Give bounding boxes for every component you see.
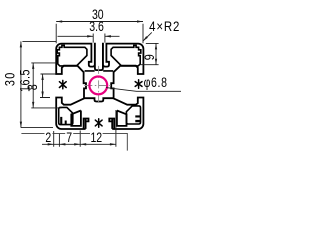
svg-text:3.6: 3.6 bbox=[89, 19, 104, 35]
hollow chamber D (bottom-right) with serration bbox=[126, 106, 140, 124]
asterisk in phi6.8 label bbox=[135, 80, 142, 88]
dimension 30 left: arrows bbox=[20, 41, 22, 47]
dimension 16.5: line bbox=[32, 63, 34, 108]
svg-text:2: 2 bbox=[45, 130, 51, 146]
label 4xR2: leader bbox=[143, 32, 152, 41]
svg-text:φ6.8: φ6.8 bbox=[144, 75, 168, 91]
dimension 30 left: extension lines bbox=[21, 41, 56, 127]
bottom chain dimension line bbox=[42, 143, 116, 145]
hollow chamber C (bottom-left) with serration bbox=[59, 107, 73, 124]
hollow chamber A (top-left) with nut serration notch bbox=[57, 45, 87, 66]
centerline vertical (gray dash-dot) bbox=[98, 66, 100, 105]
svg-text:30: 30 bbox=[2, 71, 17, 86]
svg-text:8: 8 bbox=[25, 84, 40, 90]
dimension 3.6: lines bbox=[58, 35, 120, 37]
bottom chain arrows bbox=[48, 143, 54, 145]
dimension 3.6: arrows bbox=[87, 35, 93, 37]
svg-text:7: 7 bbox=[66, 130, 72, 146]
svg-text:12: 12 bbox=[90, 130, 102, 146]
leader for phi6.8 bbox=[106, 88, 181, 92]
dimension 30 top: arrows bbox=[56, 20, 62, 22]
dimension 30 top: line bbox=[56, 21, 143, 23]
hollow C serration tabs bbox=[60, 117, 66, 125]
dimension 3.6: extension lines bbox=[93, 34, 105, 43]
core top wall bbox=[85, 70, 114, 72]
dimension 9 right: arrows bbox=[155, 43, 157, 49]
asterisk left slot bbox=[59, 80, 66, 88]
asterisk bottom slot bbox=[95, 119, 102, 127]
dimension 8: arrows bbox=[41, 74, 43, 80]
dimension 9 right: line bbox=[155, 43, 157, 64]
svg-text:9: 9 bbox=[142, 54, 157, 60]
profile outer outline with 4 T-slots (aluminum extrusion cross-section) bbox=[56, 44, 143, 129]
center hole phi6.8 (magenta highlight circle) bbox=[89, 77, 107, 95]
hollow chamber B (top-right) with nut serration notch bbox=[111, 45, 141, 66]
dimension 8: extension lines bbox=[40, 74, 56, 98]
hollow D serration tabs bbox=[135, 115, 140, 122]
dimension 30 top: extension lines bbox=[56, 24, 143, 43]
dimension 16.5: extension lines bbox=[31, 63, 61, 108]
dimension 9 right: extension lines bbox=[140, 43, 159, 64]
bottom chain extension lines bbox=[54, 110, 116, 147]
frame line bottom-right bbox=[21, 133, 127, 150]
svg-text:4×R2: 4×R2 bbox=[149, 19, 180, 34]
dimension 8: line bbox=[42, 74, 44, 98]
dimension 16.5: arrows bbox=[32, 63, 34, 69]
centerline horizontal (gray dash-dot) bbox=[84, 85, 113, 87]
dimension 30 left: line bbox=[20, 41, 22, 127]
